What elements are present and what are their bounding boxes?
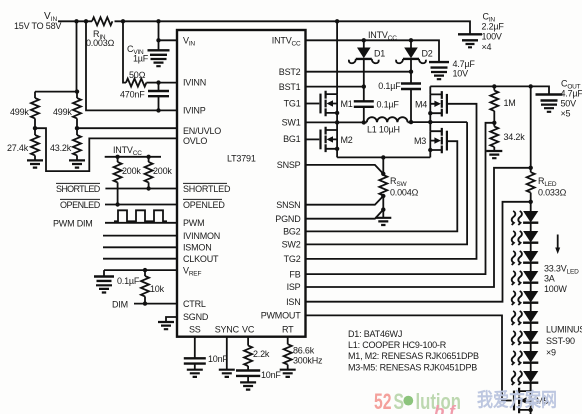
wire SNSP pin with diagonal [306, 157, 386, 176]
svg-text:×5: ×5 [561, 109, 571, 119]
op-amp/IC U1 LT3791 box [177, 30, 306, 337]
wire OPENLED [105, 202, 177, 206]
label 33.3VLED 3A 100W [544, 264, 579, 295]
svg-text:PWM: PWM [183, 218, 204, 228]
svg-text:86.6k: 86.6k [293, 346, 315, 356]
svg-text:L1 10µH: L1 10µH [367, 125, 400, 135]
capacitor 4.7uF 10V with ground [429, 59, 475, 79]
svg-text:50Ω: 50Ω [129, 70, 146, 80]
svg-text:TG1: TG1 [284, 98, 301, 108]
diode D2 BAT46WJ (schottky) [396, 40, 433, 63]
svg-text:4.7µF: 4.7µF [561, 89, 582, 99]
junction dot VIN pin [156, 38, 160, 42]
svg-text:200k: 200k [153, 166, 172, 176]
svg-text:470nF: 470nF [120, 90, 145, 100]
inductor L1 10uH [362, 117, 414, 134]
svg-text:SHORTLED: SHORTLED [183, 184, 231, 194]
svg-text:LT3791: LT3791 [227, 154, 256, 164]
svg-text:ISN: ISN [286, 297, 300, 307]
LED string D3-D11 LUMINUS SST-90 x9 [512, 211, 539, 391]
svg-text:RT: RT [282, 325, 294, 335]
label SHORTLED (overline) [56, 183, 101, 194]
wire VIN pin drop [159, 21, 178, 50]
wire SW2 pin riser [306, 122, 468, 244]
svg-text:43.2k: 43.2k [50, 143, 72, 153]
resistor 200k (left) [114, 157, 142, 205]
resistor 1M [490, 86, 515, 125]
ground at RT [280, 370, 296, 377]
svg-text:300kHz: 300kHz [293, 356, 323, 366]
svg-text:0.004Ω: 0.004Ω [390, 188, 419, 198]
svg-text:SNSP: SNSP [277, 160, 301, 170]
wire SNSN pin with diagonal [306, 194, 386, 205]
svg-text:4.7µF: 4.7µF [453, 59, 476, 69]
svg-text:IVINP: IVINP [183, 105, 206, 115]
wire ISP pin riser [306, 168, 531, 287]
svg-text:50V: 50V [561, 99, 577, 109]
svg-text:ISMON: ISMON [183, 243, 212, 253]
capacitor 470nF [120, 83, 169, 111]
wire D1 cathode / BST1 node [362, 60, 366, 101]
resistor 27.4k [7, 128, 39, 160]
svg-text:CLKOUT: CLKOUT [183, 254, 219, 264]
wire IVINP from rail [86, 21, 177, 110]
capacitor 0.1uF (BST1) [354, 100, 400, 123]
svg-text:SGND: SGND [183, 312, 209, 322]
resistor 34.2k [490, 123, 525, 151]
svg-text:EN/UVLO: EN/UVLO [183, 126, 221, 136]
resistor RLED 0.033ohm [527, 172, 567, 211]
junction dot IVINP node [156, 108, 160, 112]
PWM pulse waveform [114, 210, 167, 221]
svg-text:27.4k: 27.4k [7, 143, 29, 153]
node INTVCC (left) bar [105, 145, 161, 159]
svg-text:BG1: BG1 [283, 134, 301, 144]
svg-text:3A: 3A [544, 274, 555, 284]
svg-text:0.033Ω: 0.033Ω [538, 188, 567, 198]
label OPENLED (overline) [60, 199, 101, 210]
svg-text:SNSN: SNSN [276, 200, 300, 210]
wire INTVCC rail (right) [306, 30, 440, 62]
resistor 43.2k [50, 128, 81, 160]
wire VREF [104, 268, 177, 272]
svg-text:499k: 499k [53, 107, 72, 117]
svg-text:×4: ×4 [482, 42, 492, 52]
svg-text:PWM DIM: PWM DIM [53, 219, 93, 229]
transistor M1 [321, 21, 353, 122]
IC U1 right pin labels [261, 35, 301, 320]
wire CLKOUT [103, 258, 177, 260]
svg-text:52: 52 [374, 389, 392, 414]
resistor 499k (left) [10, 92, 39, 129]
IC U1 left pin labels [183, 35, 231, 322]
svg-text:b f: b f [434, 402, 457, 414]
transistor M3 [414, 122, 447, 157]
junction dots divider taps [33, 126, 79, 130]
svg-text:SYNC: SYNC [215, 325, 240, 335]
svg-text:SST-90: SST-90 [546, 336, 575, 346]
svg-text:10V: 10V [453, 69, 469, 79]
capacitor 0.1uF (BST2) [378, 81, 421, 122]
svg-text:×9: ×9 [546, 348, 556, 358]
wire OVLO route [35, 128, 177, 171]
svg-text:0.003Ω: 0.003Ω [86, 38, 115, 48]
svg-text:S: S [394, 389, 405, 414]
diode D1 BAT46WJ (schottky) [349, 40, 385, 63]
wire SGND to ground [166, 317, 177, 322]
svg-text:2.2k: 2.2k [253, 349, 270, 359]
svg-text:0.1µF: 0.1µF [378, 81, 401, 91]
svg-text:10k: 10k [150, 284, 165, 294]
wire SHORTLED [105, 186, 177, 190]
transistor M5 [514, 383, 548, 414]
wire SS pin [194, 337, 196, 358]
resistor 2.2k [244, 346, 270, 371]
capacitor CIN 2.2uF 100V x4 with ground [458, 12, 504, 53]
wire PGND pin with diagonal [306, 210, 384, 219]
capacitor 10nF at VC [236, 370, 281, 382]
junction dot 499k top [75, 89, 79, 93]
svg-text:VC: VC [242, 325, 255, 335]
svg-text:OPENLED: OPENLED [60, 200, 101, 210]
wire RSW bottom to ground [381, 195, 385, 217]
wire EN/UVLO [77, 127, 177, 129]
ground at SGND [158, 322, 174, 329]
label LUMINUS SST-90 x9 [546, 325, 582, 358]
wire VIN top rail [58, 21, 470, 34]
ground at SYNC [219, 370, 235, 377]
svg-text:SW2: SW2 [282, 240, 301, 250]
wire SYNC pin to ground [226, 337, 228, 370]
wire VC pin [247, 337, 249, 346]
capacitor CVIN 1uF with ground [127, 44, 170, 66]
svg-text:BST1: BST1 [279, 82, 301, 92]
svg-text:OPENLED: OPENLED [183, 200, 225, 210]
wire RLED branch from VOUT [529, 86, 533, 172]
svg-text:200k: 200k [122, 166, 141, 176]
wire BG1 pin to M2 gate [306, 138, 320, 140]
svg-text:1M: 1M [504, 98, 516, 108]
ground at 34.2k [486, 151, 502, 158]
svg-text:PWMOUT: PWMOUT [261, 311, 301, 321]
svg-text:SHORTLED: SHORTLED [56, 184, 101, 194]
svg-text:M4: M4 [415, 100, 427, 110]
wire from rail to 499k pair [35, 21, 77, 91]
svg-text:10nF: 10nF [261, 370, 281, 380]
svg-text:SS: SS [189, 325, 201, 335]
resistor 200k (right) [145, 157, 173, 189]
wire FB pin riser [306, 123, 495, 274]
wire IVINMON [103, 235, 177, 237]
capacitor COUT 4.7uF 50V x5 with ground [536, 79, 582, 119]
ground below 43.2k [69, 160, 85, 167]
svg-text:0.1µF: 0.1µF [377, 100, 400, 110]
LED current arrow [555, 235, 560, 255]
svg-text:SW1: SW1 [282, 118, 301, 128]
svg-text:D1: D1 [374, 49, 385, 59]
wire RT pin [287, 337, 289, 345]
svg-text:100V: 100V [482, 32, 502, 42]
IC U1 bottom pin labels [189, 325, 294, 335]
svg-text:TG2: TG2 [284, 254, 301, 264]
svg-text:CTRL: CTRL [183, 299, 206, 309]
transistor M2 [321, 122, 353, 157]
svg-text:1µF: 1µF [133, 54, 149, 64]
resistor RIN 0.003ohm [86, 17, 115, 48]
svg-text:D1: BAT46WJ: D1: BAT46WJ [348, 329, 402, 339]
svg-text:100W: 100W [544, 284, 567, 294]
ground at SS [187, 370, 203, 377]
svg-text:M1: M1 [341, 99, 353, 109]
resistor RSW 0.004ohm [379, 175, 418, 198]
capacitor 10nF at SS [184, 354, 229, 370]
wire BST2 pin [306, 71, 412, 73]
svg-text:15V TO 58V: 15V TO 58V [14, 21, 61, 31]
svg-text:2.2µF: 2.2µF [482, 22, 505, 32]
junction dot IVINN node [156, 80, 160, 84]
wire PWMOUT to M5 gate [306, 315, 512, 400]
svg-text:OVLO: OVLO [183, 136, 207, 146]
ground at VC [240, 382, 256, 389]
wire PWM [105, 222, 177, 224]
svg-text:IVINN: IVINN [183, 78, 206, 88]
svg-text:M2: M2 [341, 135, 353, 145]
svg-text:D2: D2 [422, 49, 433, 59]
svg-text:M3-M5: RENESAS RJK0451DPB: M3-M5: RENESAS RJK0451DPB [348, 362, 477, 372]
resistor 86.6k 300kHz [284, 344, 323, 370]
wire DIM / CTRL [134, 301, 177, 305]
ground below 27.4k [27, 160, 43, 167]
svg-text:BST2: BST2 [279, 67, 301, 77]
svg-text:LUMINUS: LUMINUS [546, 325, 582, 335]
svg-text:我爱方案网: 我爱方案网 [477, 388, 557, 411]
resistor 10k [141, 270, 165, 304]
wire IVINN pin [159, 82, 178, 84]
svg-text:0.1µF: 0.1µF [117, 276, 140, 286]
wire D2 cathode / BST2 node [409, 60, 413, 83]
wire BST1 pin [306, 86, 364, 88]
svg-text:FB: FB [289, 269, 300, 279]
svg-text:ISP: ISP [287, 282, 301, 292]
junction dots on VIN rail [74, 19, 339, 23]
transistor M4 [415, 86, 447, 122]
wire ISMON [103, 246, 177, 248]
wire SW2 node to M3/M4 [411, 120, 467, 124]
wire SW1 pin [306, 120, 364, 124]
svg-text:L1: COOPER HC9-100-R: L1: COOPER HC9-100-R [348, 340, 447, 350]
wire bottom rail M2-RSW-M3 [337, 155, 430, 159]
wire TG1 pin to M1 gate [306, 103, 320, 105]
svg-text:10nF: 10nF [208, 354, 228, 364]
wire ISN pin riser [306, 202, 531, 302]
wire 50ohm branch from rail [123, 21, 126, 82]
svg-text:PGND: PGND [275, 214, 301, 224]
svg-text:IVINMON: IVINMON [183, 231, 220, 241]
resistor 499k (right) [53, 92, 81, 129]
ground at RSW [375, 218, 391, 225]
svg-text:M3: M3 [414, 136, 426, 146]
svg-text:499k: 499k [10, 107, 29, 117]
wire TG2 pin to M4 gate [306, 104, 477, 259]
svg-text:DIM: DIM [112, 300, 128, 310]
resistor 50ohm [126, 70, 159, 87]
svg-text:34.2k: 34.2k [504, 132, 526, 142]
svg-text:BG2: BG2 [283, 227, 301, 237]
svg-text:M1, M2: RENESAS RJK0651DPB: M1, M2: RENESAS RJK0651DPB [348, 351, 479, 361]
notes text block [348, 329, 479, 373]
wire VOUT rail [430, 84, 549, 94]
wire BG2 pin to M3 gate [306, 141, 458, 231]
watermark 52Solution [374, 389, 461, 414]
capacitor 0.1uF at VREF with ground [94, 270, 140, 292]
